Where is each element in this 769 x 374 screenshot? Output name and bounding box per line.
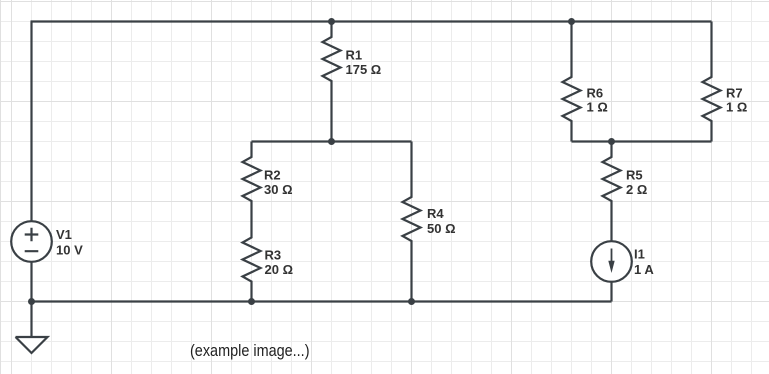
svg-text:2 Ω: 2 Ω [626,182,647,197]
svg-text:1 Ω: 1 Ω [726,100,747,115]
wire: ground lead below bottom bus [30,302,32,338]
svg-text:V1: V1 [56,227,72,242]
svg-text:R5: R5 [626,168,643,183]
svg-text:R4: R4 [427,206,444,221]
svg-text:R2: R2 [264,168,281,183]
ground [16,337,48,353]
node: V1/ground junction [28,298,35,305]
node: R1 bottom junction [328,138,335,145]
svg-text:(example image...): (example image...) [190,342,310,360]
current source I1 [591,241,632,282]
node: R6 top junction [568,18,575,25]
wire: middle bus right (R6 bottom to R7 bottom) [572,140,712,142]
wire: bottom bus from V1 branch to I1 branch [32,300,612,302]
svg-text:30 Ω: 30 Ω [264,182,293,197]
resistor R1 [323,22,341,142]
svg-text:R1: R1 [346,48,363,63]
wire: V1 bottom lead down to bottom bus [30,261,32,302]
wire: I1 bottom lead [610,281,612,302]
wire: middle bus left (R2 top to R4 top) [252,140,412,142]
voltage source V1 [11,221,52,262]
resistor R5 [603,142,621,243]
svg-text:1 Ω: 1 Ω [587,100,608,115]
wire: top bus from top-left corner to top-right corner [31,20,712,22]
resistor R3 [243,222,261,302]
node: R3 bottom junction [248,298,255,305]
svg-text:175 Ω: 175 Ω [346,62,382,77]
wire: left vertical from top-left corner down to V1 top [30,22,32,223]
svg-text:1 A: 1 A [634,262,654,277]
svg-text:I1: I1 [634,247,645,262]
resistor R7 [703,22,721,142]
node: R1 top junction [328,18,335,25]
node: R5 top junction [608,138,615,145]
svg-text:R6: R6 [587,86,604,101]
resistor R6 [563,22,581,142]
svg-text:50 Ω: 50 Ω [427,221,456,236]
svg-text:20 Ω: 20 Ω [265,262,294,277]
node: R4 bottom junction [408,298,415,305]
svg-text:R7: R7 [726,86,743,101]
svg-text:10 V: 10 V [56,243,83,258]
svg-text:R3: R3 [265,248,282,263]
resistor R2 [243,142,261,223]
resistor R4 [403,142,421,302]
